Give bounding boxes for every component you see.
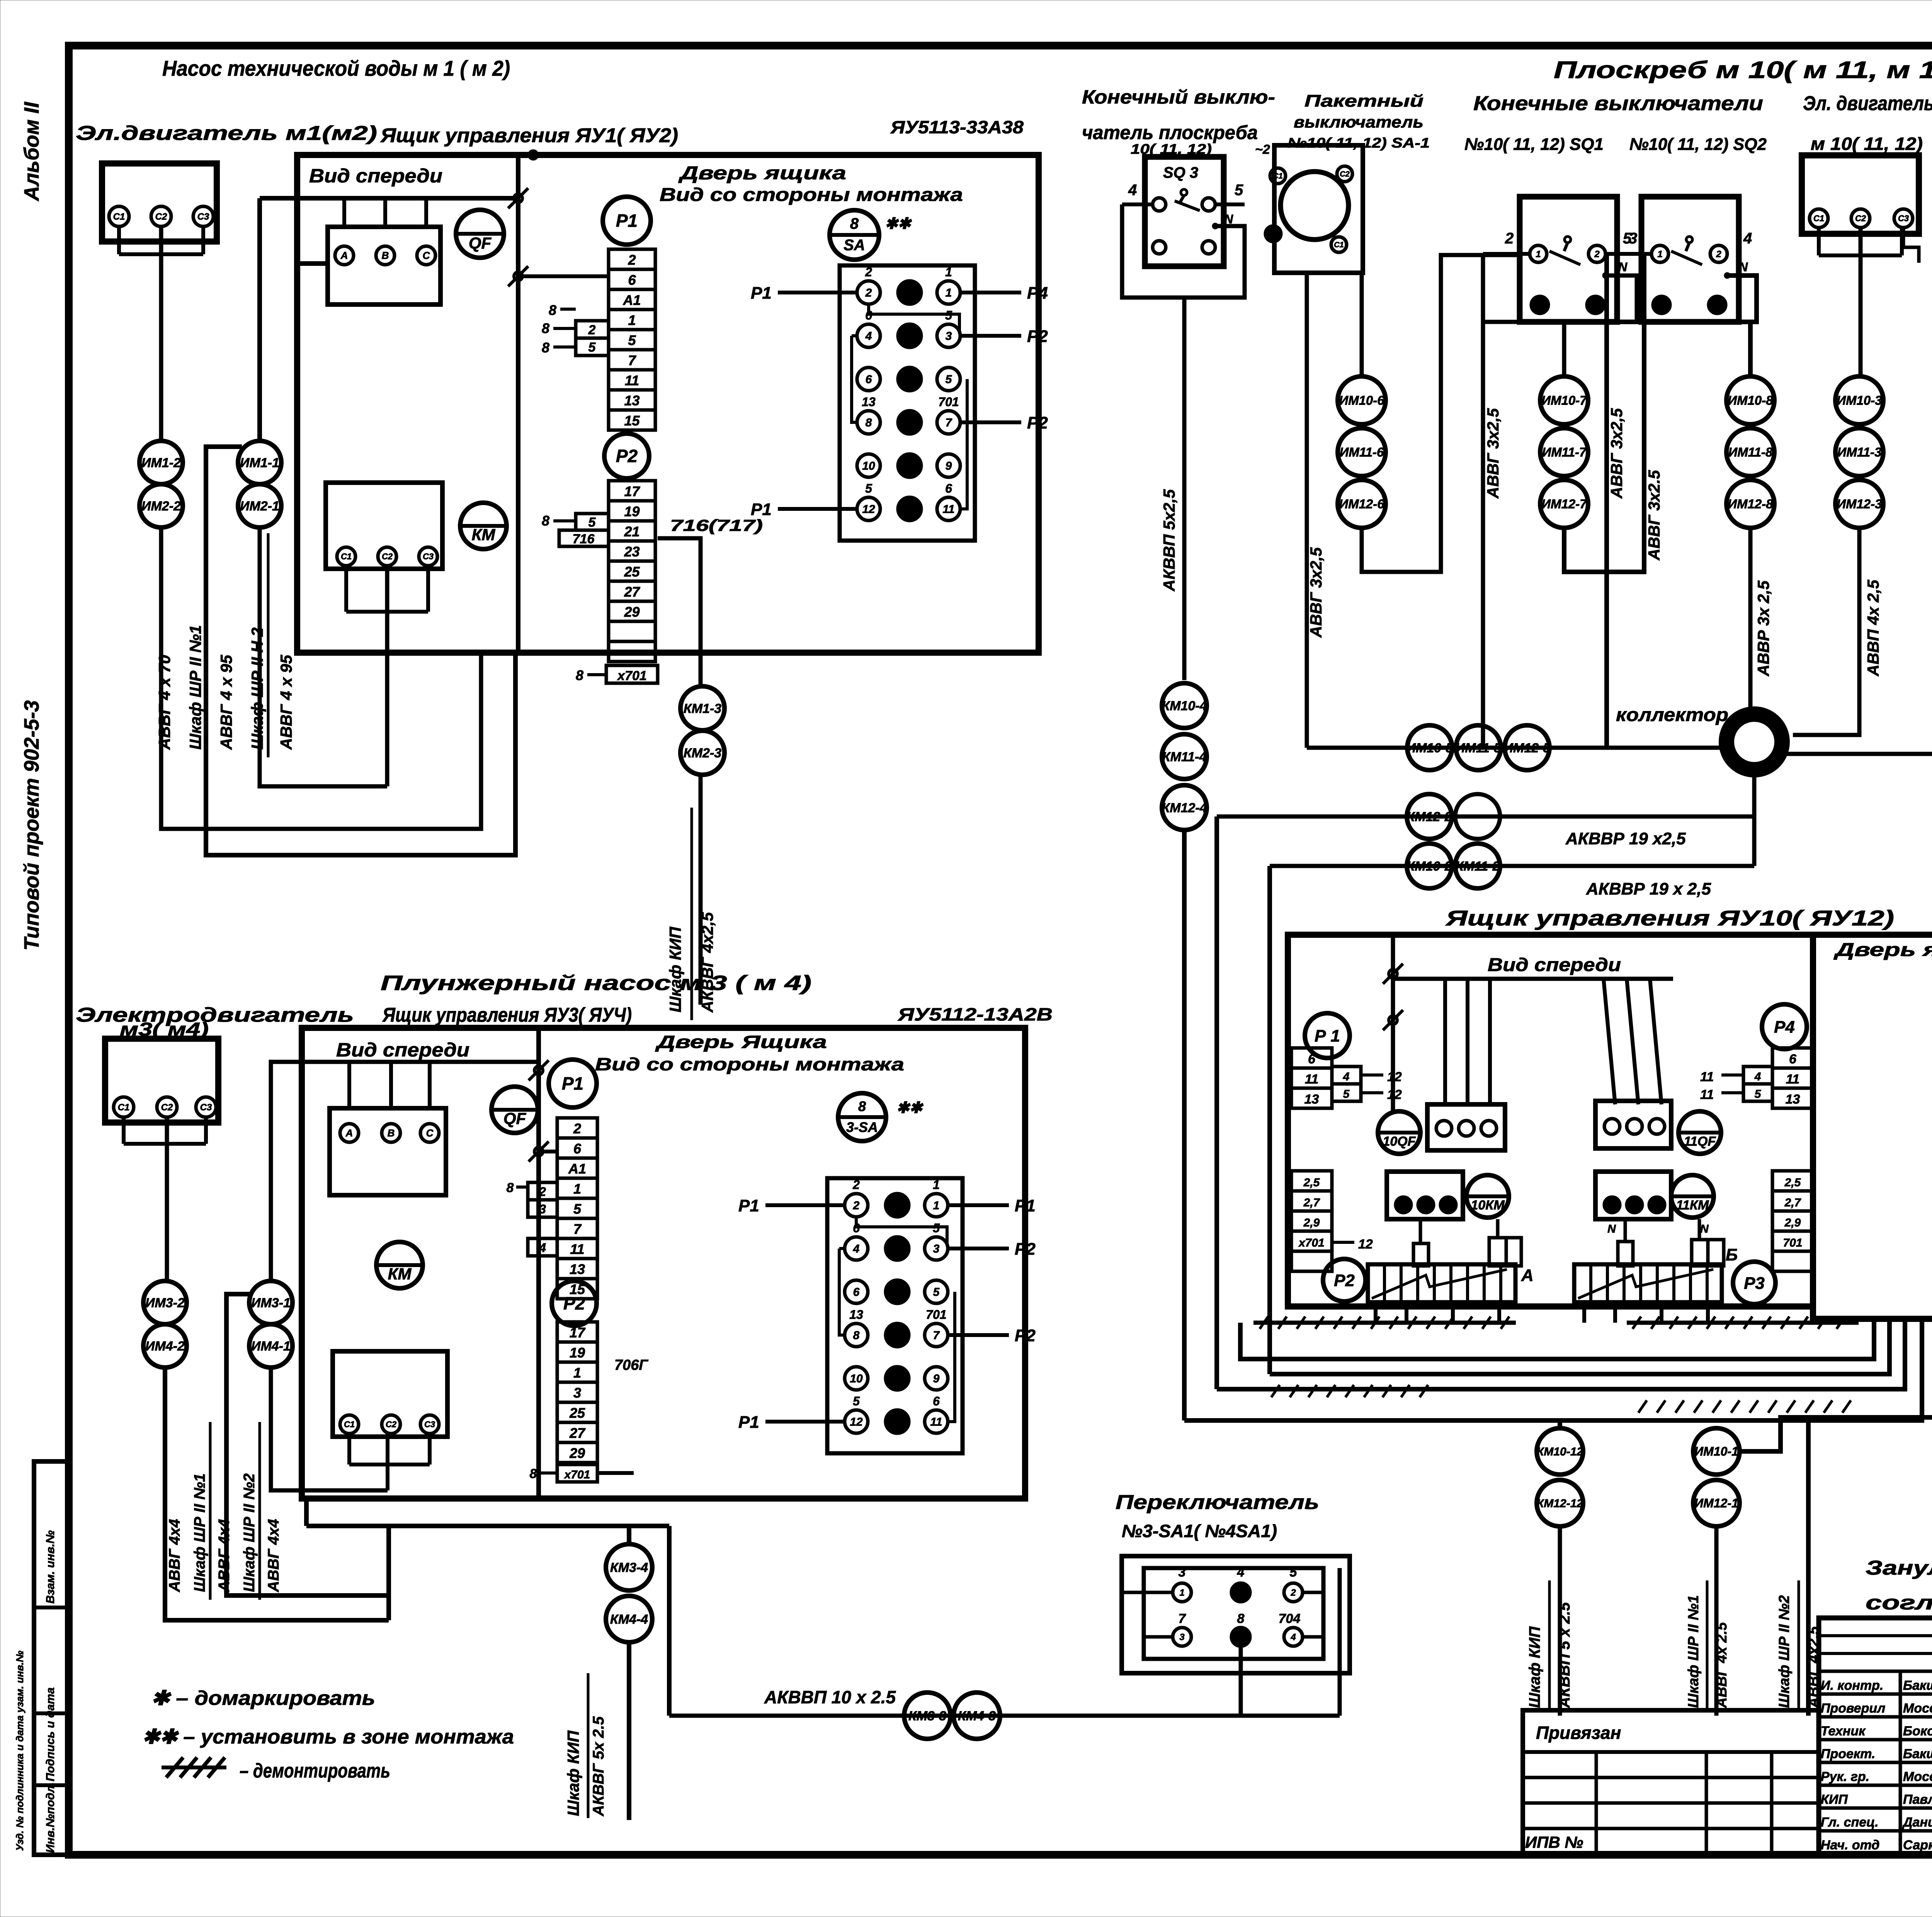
wire KM3-4 stack line [627,1526,631,1544]
svg-text:Шкаф КИП: Шкаф КИП [564,1730,582,1816]
svg-text:КМ10-2: КМ10-2 [1406,859,1452,874]
motor M10 terminals [1810,209,1828,228]
svg-text:4: 4 [865,330,872,343]
svg-text:Плунжерный насос м 3 (: Плунжерный насос м 3 ( м 4) [381,971,811,995]
svg-text:Подпись и дата: Подпись и дата [44,1687,57,1781]
wire hook under IM12-6 [1362,255,1520,572]
cable marker IM2-2 [139,484,183,527]
slash marks YU10 [1389,970,1397,978]
contactor KM circle M3 [376,1242,423,1288]
svg-text:8: 8 [576,667,583,683]
svg-text:ИМ11-5: ИМ11-5 [1456,741,1502,755]
svg-text:1: 1 [573,1181,581,1197]
limit switch SQ2 box [1641,197,1739,322]
hatch on loop [1271,1385,1280,1397]
wire SQ2 left dropper [1604,322,1609,748]
svg-text:701: 701 [926,1308,946,1322]
feed drop in YU10 [1391,935,1395,1111]
svg-text:Вид спереди: Вид спереди [336,1039,469,1061]
svg-text:В: В [388,1127,395,1139]
svg-text:1: 1 [628,312,636,328]
svg-text:КМ12-2: КМ12-2 [1406,810,1452,824]
cable marker KM11-4 [1162,734,1207,779]
bus AKVVR 19x2.5 lower [1270,864,1754,868]
cable marker KM3-3 [904,1692,951,1739]
selector switch box inner [1144,1568,1323,1659]
terminal strip P4 YU10 [1772,1048,1813,1068]
terminal C3 bottom [419,547,437,566]
cable marker IM12-1 [1693,1480,1740,1526]
fuse rects above rail A [1413,1243,1429,1266]
svg-text:Инв.№подл.: Инв.№подл. [44,1782,57,1853]
cable marker stack IM10-8 [1726,376,1774,424]
svg-text:А: А [1521,1266,1534,1285]
svg-text:Гл. спец.: Гл. спец. [1821,1815,1879,1830]
svg-text:ИМ10-3: ИМ10-3 [1837,393,1882,408]
svg-text:А: А [345,1127,353,1139]
svg-text:10: 10 [862,460,875,473]
svg-text:АВВГ 4х4: АВВГ 4х4 [166,1519,183,1592]
svg-text:4: 4 [1290,1632,1296,1642]
svg-text:1Л: 1Л [890,1329,905,1342]
svg-text:2: 2 [1716,249,1721,259]
svg-text:КМ12-4: КМ12-4 [1162,801,1207,815]
terminal strip P2 [609,481,655,501]
limit switch SQ1 box [1520,197,1617,322]
terminal cell x701 [606,665,658,683]
cable marker IM10-1 [1693,1428,1740,1475]
svg-text:17: 17 [570,1325,586,1340]
wire IM3-1 left jog down [226,1294,389,1596]
svg-text:7: 7 [1179,1611,1187,1626]
motor M1 terminal C1 [109,206,129,226]
svg-text:13: 13 [862,395,876,409]
selector SA circle [830,210,879,260]
svg-text:№3-SА1( №4SА1): №3-SА1( №4SА1) [1122,1521,1277,1541]
wire motor M3 jumper [122,1117,126,1144]
svg-text:5: 5 [865,481,872,495]
terminal B [376,246,395,265]
wire stub ShR2 [1806,1417,1811,1716]
svg-text:6: 6 [853,1286,860,1299]
divider YU1 front view [516,155,520,653]
svg-text:12: 12 [850,1416,863,1429]
wire 716 to KM1-3 [658,538,701,686]
svg-text:21: 21 [624,524,639,539]
relay P1 circle M3 [549,1060,597,1107]
loop vertical from bus upper [1214,816,1219,1389]
wire IM4-2 down right up [165,1368,389,1620]
limit switch SQ3 box [1145,157,1224,266]
svg-text:Мосеенко: Мосеенко [1903,1769,1932,1784]
wire SQ1 left dropper [1481,322,1485,748]
svg-text:Шкаф ШР II №1: Шкаф ШР II №1 [191,1473,208,1592]
wire IM1-1 up to bus [257,198,262,441]
svg-text:Шкаф ШР II №1: Шкаф ШР II №1 [186,625,204,750]
svg-text:АКВВП 5х2,5: АКВВП 5х2,5 [1160,489,1178,592]
svg-text:АВВГ 4 х 95: АВВГ 4 х 95 [277,655,295,750]
svg-text:2А: 2А [889,1416,905,1429]
packet switch SA-1 body [1274,145,1363,273]
wire SQ2 to stack IM10-8 [1748,322,1753,376]
relay P3 YU10 [1733,1262,1776,1304]
slash marks M3 [534,1066,543,1075]
contactor 10KM [1466,1175,1509,1218]
svg-text:– демонтировать: – демонтировать [240,1760,390,1782]
svg-text:Мосеенко: Мосеенко [1903,1701,1932,1716]
svg-text:КМ4-4: КМ4-4 [610,1612,648,1627]
terminal rail B [1574,1264,1722,1302]
svg-text:С: С [426,1127,434,1139]
svg-text:4: 4 [853,1243,860,1255]
cable marker stack IM10-3 [1835,376,1883,424]
svg-text:2: 2 [539,1185,546,1199]
svg-text:8: 8 [530,1466,537,1481]
svg-text:QF: QF [503,1109,527,1128]
svg-text:8: 8 [542,320,549,336]
svg-text:ИМ10-6: ИМ10-6 [1339,393,1384,408]
svg-text:Проверил: Проверил [1821,1701,1885,1716]
lower right contactor box YU10 [1595,1172,1671,1219]
svg-text:2: 2 [852,1178,860,1192]
svg-text:Взам. инв.№: Взам. инв.№ [44,1530,57,1604]
svg-text:Р2: Р2 [1027,327,1048,346]
svg-text:4: 4 [1743,230,1752,247]
svg-text:ИМ12-8: ИМ12-8 [1728,497,1773,511]
wire SQ1 to stack IM10-7 [1562,322,1566,376]
svg-text:Техник: Техник [1821,1724,1866,1738]
svg-text:Конечные выключатели: Конечные выключатели [1473,92,1763,115]
svg-text:3: 3 [946,330,952,343]
divider YU3 [536,1028,541,1499]
hatched bars under YU10 [1253,1321,1516,1325]
svg-text:10: 10 [850,1373,863,1385]
side cells P1 M3 [528,1182,557,1200]
relay point P2 circle [604,434,649,478]
svg-text:Р1: Р1 [751,500,772,519]
svg-text:АКВВП 10 х 2.5: АКВВП 10 х 2.5 [764,1687,896,1707]
svg-text:5: 5 [588,515,596,530]
svg-text:КМ4-3: КМ4-3 [958,1709,996,1723]
cable marker blank [1455,794,1500,839]
svg-text:КМ12-12: КМ12-12 [1537,1497,1583,1510]
terminal rail A [1368,1264,1515,1302]
svg-text:8: 8 [866,417,872,429]
wire IM12-8 down to collector [1748,528,1753,713]
svg-text:5А: 5А [902,373,917,386]
svg-text:ИМ11-3: ИМ11-3 [1837,445,1882,459]
wire IM2-2 down and right to box [161,527,481,829]
svg-text:Нач. отд: Нач. отд [1821,1838,1879,1852]
svg-text:11QF: 11QF [1684,1134,1716,1149]
svg-text:И. контр.: И. контр. [1821,1678,1883,1693]
svg-text:КМ: КМ [472,526,496,544]
svg-text:Шкаф КИП: Шкаф КИП [666,927,684,1012]
right contactor box YU10 [1595,1101,1671,1148]
svg-text:17: 17 [624,483,640,499]
svg-text:SQ 3: SQ 3 [1163,164,1198,181]
svg-text:Эл.двигатель м1(м2): Эл.двигатель м1(м2) [76,122,377,145]
svg-text:6: 6 [933,1394,940,1408]
svg-text:х701: х701 [617,668,647,683]
svg-text:2: 2 [1594,249,1600,259]
svg-text:5: 5 [1235,182,1243,199]
control box YU3 outline [302,1028,1025,1499]
svg-text:согласно ПУЭ § I - 7- 39: согласно ПУЭ § I - 7- 39 [1866,1592,1932,1614]
wire x701 M3 stub [597,1471,634,1475]
svg-text:15: 15 [624,413,640,429]
svg-text:4А: 4А [889,1243,905,1255]
selector switch box outer [1122,1556,1350,1673]
svg-text:Данилов: Данилов [1902,1815,1932,1830]
riser to YU3 bottom rail [386,1526,391,1620]
svg-text:27: 27 [569,1425,586,1441]
SQ3 lever [1181,189,1187,196]
door terminal grid YU3 [827,1178,963,1453]
svg-text:КМ2-3: КМ2-3 [684,746,721,760]
svg-text:4: 4 [1714,300,1719,310]
svg-text:Шкаф КИП: Шкаф КИП [1526,1626,1543,1708]
svg-text:Альбом II: Альбом II [20,102,43,202]
svg-text:11КМ: 11КМ [1676,1198,1709,1213]
SA-1 terminal C2 bottom-left [1265,226,1281,242]
svg-text:6: 6 [628,272,636,288]
svg-text:Р2: Р2 [1015,1326,1036,1345]
wire feed bus in YU1 [260,196,518,201]
svg-text:1: 1 [1657,249,1662,259]
svg-text:Вид со стороны монтажа: Вид со стороны монтажа [660,185,963,205]
svg-text:5: 5 [1343,1088,1350,1101]
svg-text:ИМ4-1: ИМ4-1 [251,1339,291,1354]
svg-text:5: 5 [853,1394,860,1408]
svg-text:Шкаф ШР II №2: Шкаф ШР II №2 [1776,1595,1793,1708]
collector ring [1726,714,1782,770]
svg-text:С2: С2 [1268,230,1278,238]
svg-text:С2: С2 [1340,170,1350,179]
wire motor M3 center down [165,1117,169,1281]
terminal A M3 [340,1124,359,1142]
svg-text:ИМ10-8: ИМ10-8 [1728,393,1773,408]
feed bus in YU10 [1393,977,1673,981]
svg-text:С1: С1 [341,552,352,561]
svg-text:13: 13 [1304,1092,1319,1107]
terminal C [417,246,435,265]
svg-text:№10( 11, 12) SA-1: №10( 11, 12) SA-1 [1287,135,1430,151]
wires rails to bars under YU10 [1374,1302,1378,1323]
svg-text:Вид спереди: Вид спереди [309,165,442,187]
svg-text:4: 4 [1343,1070,1350,1083]
svg-text:АВВГ 4х4: АВВГ 4х4 [216,1519,233,1592]
svg-text:1: 1 [946,287,952,299]
svg-text:3: 3 [1629,230,1637,247]
svg-text:25: 25 [569,1405,585,1421]
svg-text:5: 5 [588,340,596,355]
cable marker KM12-4 [1162,785,1207,830]
SA-1 terminal C2 top-right [1337,166,1352,182]
cable marker IM4-2 [143,1324,187,1368]
breaker 10QF [1378,1111,1420,1154]
nested loop 2 [1182,830,1187,1420]
svg-text:ИМ3-2: ИМ3-2 [145,1296,185,1310]
svg-text:19: 19 [624,503,639,519]
svg-text:АВВГ 3х2.5: АВВГ 3х2.5 [1645,470,1663,561]
svg-text:№10( 11, 12) SQ2: №10( 11, 12) SQ2 [1629,135,1767,154]
bus left to collector with IM10-5 [1307,746,1726,750]
wire motor M1 terminals to jumper [117,226,121,254]
svg-text:N: N [1224,212,1233,226]
svg-text:4: 4 [1237,1565,1245,1580]
privyazan table [1523,1710,1819,1855]
svg-text:АВВР 3х 2,5: АВВР 3х 2,5 [1754,580,1772,677]
svg-text:Саркисьянц: Саркисьянц [1903,1838,1932,1852]
svg-text:2: 2 [865,287,872,299]
bus AKVVR 19x2.5 upper [1217,815,1754,819]
wire M3 bottom jumpers [347,1434,351,1465]
motor M1 terminal C3 [193,206,213,226]
svg-text:Бакшеева: Бакшеева [1903,1747,1932,1761]
svg-text:2,5: 2,5 [1784,1176,1801,1189]
cable marker KM12-12 [1537,1480,1583,1526]
terminal C2 bottom [378,547,396,566]
svg-text:✱✱: ✱✱ [896,1099,924,1116]
svg-text:Р1: Р1 [738,1196,759,1215]
svg-text:АКВВП 5 х 2.5: АКВВП 5 х 2.5 [1556,1602,1573,1708]
svg-text:С1: С1 [1813,214,1824,223]
svg-text:2,5: 2,5 [1303,1176,1320,1189]
side cells near P2 strip [576,514,609,530]
wire M10 jumper [1817,228,1821,255]
motor M3 terminal C2 [157,1097,177,1117]
svg-text:Ящик управления ЯУ1( ЯУ2): Ящик управления ЯУ1( ЯУ2) [380,124,678,147]
motor M1 terminal box [102,163,217,242]
svg-text:Дверь ящика: Дверь ящика [678,163,846,184]
terminal B M3 [382,1124,400,1142]
svg-text:8: 8 [1238,1632,1243,1642]
svg-text:9: 9 [933,1373,940,1385]
wire bottom contactor center down [385,566,389,786]
svg-text:29: 29 [624,604,639,620]
breaker 11QF [1679,1111,1721,1154]
svg-text:Дверь Ящика: Дверь Ящика [655,1032,827,1052]
svg-text:2: 2 [573,1121,581,1136]
svg-text:8: 8 [1237,1611,1245,1626]
relay P1 YU10 [1305,1013,1350,1058]
cable marker IM2-1 [238,484,281,527]
svg-text:SA: SA [844,237,865,254]
cable marker IM3-2 [143,1281,187,1324]
svg-text:6: 6 [945,481,952,495]
cable marker KM1-3 [680,686,724,730]
wire IM3-1 up to feed bus [271,1062,539,1281]
terminal A [335,246,354,265]
wire M10 down to stack [1859,228,1863,376]
svg-text:Шкаф ШР II Н 2: Шкаф ШР II Н 2 [248,628,266,750]
left margin strip boxes [34,1461,69,1855]
svg-text:3-SA: 3-SA [846,1119,878,1135]
cable marker KM10-4 [1162,683,1207,728]
left contactor box YU10 [1427,1104,1505,1150]
svg-text:В: В [382,250,389,261]
cable marker IM10-5 [1407,725,1452,770]
svg-text:Р4: Р4 [1027,284,1048,303]
svg-text:4: 4 [1128,182,1137,199]
contactor 11KM [1671,1175,1714,1218]
svg-text:25: 25 [624,564,640,580]
svg-text:Пакетный: Пакетный [1304,92,1423,111]
SQ2 contacts [1651,245,1668,262]
svg-text:✱ – домаркировать: ✱ – домаркировать [151,1687,375,1709]
svg-text:ИМ11-7: ИМ11-7 [1542,445,1587,459]
svg-text:5: 5 [933,1286,940,1299]
diagonal feeds right contactor [1604,979,1615,1104]
cable marker IM1-1 [238,441,281,484]
svg-text:ИМ10-7: ИМ10-7 [1541,393,1587,408]
svg-text:27: 27 [624,584,640,600]
svg-text:Р 1: Р 1 [1315,1026,1340,1045]
svg-text:ИМ11-8: ИМ11-8 [1728,445,1773,459]
svg-text:8: 8 [549,302,556,318]
svg-text:АКВВГ 4х2,5: АКВВГ 4х2,5 [698,912,716,1013]
svg-text:8: 8 [858,1099,866,1114]
svg-text:С2: С2 [382,552,393,561]
svg-text:ИМ12-7: ИМ12-7 [1541,497,1587,511]
svg-text:Привязан: Привязан [1536,1723,1621,1743]
svg-text:АКВВГ 5х 2.5: АКВВГ 5х 2.5 [590,1716,607,1817]
svg-text:АВВГ 3х2,5: АВВГ 3х2,5 [1484,408,1502,499]
svg-text:АВВГ 3х2,5: АВВГ 3х2,5 [1307,547,1325,638]
terminals M3 bottom [340,1415,359,1434]
selector SA circle M3 [838,1093,886,1141]
contactor box M3 top [330,1108,446,1195]
svg-text:5: 5 [946,373,952,386]
svg-text:701: 701 [1783,1237,1802,1249]
svg-text:11: 11 [1305,1072,1318,1087]
svg-text:8: 8 [853,1329,860,1342]
svg-text:С3: С3 [197,211,209,222]
svg-text:Р1: Р1 [1015,1196,1036,1215]
wire tap to contactor box left [297,261,328,266]
svg-text:12: 12 [1387,1070,1402,1084]
svg-text:Конечный выклю-: Конечный выклю- [1082,86,1275,108]
wire riser to AKVVP bus [667,1526,672,1716]
svg-text:13: 13 [849,1308,863,1322]
svg-text:11: 11 [1700,1087,1714,1102]
fuse rects above rail B [1618,1242,1633,1266]
svg-text:С1: С1 [113,211,125,222]
svg-text:АКВВР 19 х2,5: АКВВР 19 х2,5 [1565,829,1686,848]
svg-text:4: 4 [1592,300,1598,310]
SQ1 bracket and leads [1483,252,1530,256]
svg-text:ИМ2-2: ИМ2-2 [141,499,181,514]
svg-text:701: 701 [938,395,959,409]
svg-text:Вид спереди: Вид спереди [1488,955,1621,975]
svg-text:8: 8 [542,340,549,356]
svg-text:1: 1 [573,1365,581,1381]
svg-text:23: 23 [624,544,639,560]
svg-text:ИМ12-6: ИМ12-6 [1339,497,1384,511]
svg-text:Шкаф ШР II №1: Шкаф ШР II №1 [1685,1595,1702,1708]
relay P2 circle M3 [552,1281,597,1326]
svg-text:QF: QF [469,234,492,252]
slash mark mid [514,272,522,281]
svg-text:8: 8 [542,513,549,529]
svg-text:Р1: Р1 [738,1413,759,1432]
svg-text:4: 4 [539,1241,546,1255]
svg-text:КМ10-12: КМ10-12 [1537,1446,1583,1458]
svg-text:7: 7 [946,417,952,429]
svg-text:2,7: 2,7 [1784,1196,1801,1209]
wire below KM12-12 [1558,1526,1562,1716]
